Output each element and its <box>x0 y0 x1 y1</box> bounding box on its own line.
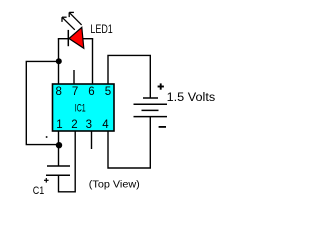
LED LED1: emission arrow left <box>62 17 75 30</box>
node: junction at pin 8 / LED anode <box>56 58 62 64</box>
capacitor C1: bottom plate <box>46 174 70 176</box>
svg-text:3: 3 <box>86 119 92 131</box>
LED LED1: cathode bar <box>67 30 69 46</box>
battery minus sign <box>159 126 166 128</box>
wire: LED right horizontal segment <box>83 38 93 40</box>
svg-text:C1: C1 <box>33 185 45 197</box>
wire: LED cathode to pin 6 vertical <box>92 39 94 84</box>
wire: C1 bottom plate to pin 2 <box>59 131 76 192</box>
wire: LED left horizontal segment <box>58 38 69 40</box>
svg-text:(Top View): (Top View) <box>89 180 140 191</box>
wire: pin 1 down to C1 top plate <box>58 131 60 166</box>
wire: pin 4 to battery negative <box>108 117 150 168</box>
svg-text:1.5 Volts: 1.5 Volts <box>167 92 216 104</box>
wire: LED anode lead / pin 8 vertical <box>58 39 60 84</box>
svg-text:IC1: IC1 <box>75 102 86 114</box>
battery plus sign <box>158 83 164 89</box>
wire: pin 5 to battery positive <box>108 55 150 98</box>
battery B1: plate 4 (long bottom) <box>134 116 168 118</box>
stray mark dot <box>46 136 48 138</box>
battery B1: plate 1 (top short) <box>143 97 158 99</box>
svg-text:4: 4 <box>102 119 109 131</box>
svg-text:8: 8 <box>55 86 61 98</box>
wire: pin 7 stub <box>73 70 75 84</box>
LED LED1: triangle <box>69 27 84 48</box>
capacitor plus sign <box>44 178 49 183</box>
battery B1: plate 3 (short) <box>142 109 159 111</box>
wire: pin 3 stub <box>91 131 93 149</box>
node: junction at pin 1 / C1 positive <box>56 142 62 148</box>
svg-text:2: 2 <box>71 119 77 131</box>
wire: pin 8 to pin 1 bypass (left loop) <box>26 61 58 144</box>
svg-text:6: 6 <box>88 86 94 98</box>
capacitor C1: top plate <box>47 165 70 167</box>
LED LED1: emission arrow right <box>69 12 81 25</box>
svg-text:7: 7 <box>72 86 78 98</box>
svg-text:5: 5 <box>105 86 111 98</box>
svg-text:1: 1 <box>56 119 62 131</box>
svg-text:LED1: LED1 <box>90 24 112 36</box>
battery B1: plate 2 (long) <box>134 103 168 105</box>
IC U1 body <box>53 84 115 131</box>
